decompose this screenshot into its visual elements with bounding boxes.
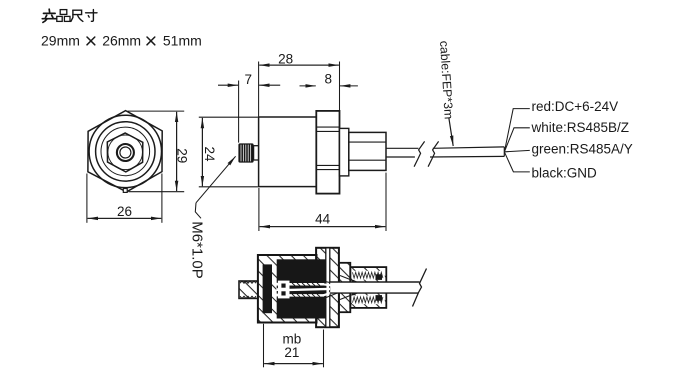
gland internal thread top [352, 271, 385, 280]
front view inscribed circle of nut [108, 135, 143, 170]
section flange inner channel [326, 249, 330, 327]
front view large circle [89, 115, 161, 187]
section wire funnel lines [324, 276, 359, 300]
wire fan line green [505, 150, 530, 151]
funnel dark wedges [352, 279, 360, 284]
svg-text:M6*1.0P: M6*1.0P [188, 221, 205, 279]
section cable bore [330, 282, 420, 293]
section step ring [339, 263, 350, 312]
side view thread coil [238, 143, 253, 162]
svg-text:8: 8 [324, 71, 332, 86]
section connector block [276, 281, 289, 299]
wire fan line white [505, 128, 530, 152]
wire fan line black [505, 152, 530, 172]
front view middle circle [96, 122, 155, 181]
multiplication sign 1 [87, 37, 155, 45]
side view cable left segment [386, 141, 504, 166]
section black potting block [277, 259, 326, 318]
front view bottom key square [123, 189, 127, 193]
section inner black strip [263, 264, 272, 313]
side view cable right segment [433, 147, 505, 148]
svg-text:7: 7 [244, 72, 252, 87]
svg-text:red:DC+6-24V: red:DC+6-24V [532, 99, 619, 114]
side view thread collar [254, 146, 259, 160]
side view hex section [316, 111, 339, 194]
svg-text:black:GND: black:GND [532, 165, 598, 180]
multiplication sign 2 [147, 37, 155, 45]
wire fan line red [505, 109, 530, 172]
connector pin 2 [281, 291, 285, 295]
M6 leader arrow [195, 156, 235, 218]
svg-text:green:RS485A/Y: green:RS485A/Y [532, 142, 633, 157]
svg-text:21: 21 [284, 345, 299, 360]
svg-text:24: 24 [202, 146, 217, 162]
char 品 [57, 10, 70, 22]
section main shell [258, 255, 317, 323]
char 产 [42, 9, 56, 22]
section flange ring [316, 248, 339, 327]
side view gland nut [349, 132, 386, 170]
side view main body [259, 117, 317, 187]
front view thin circle [101, 127, 150, 176]
front view inner hex nut [107, 133, 143, 172]
section gland nut [350, 267, 386, 308]
title 产品尺寸 (hand-drawn strokes) [42, 9, 97, 22]
dimension 44 [259, 173, 386, 231]
svg-text:29mm26mm51mm: 29mm26mm51mm [41, 32, 202, 48]
dimension mb/21 [264, 324, 324, 368]
dimension 24 [199, 117, 258, 187]
char 寸 [86, 10, 97, 22]
cable label leader arrow [449, 118, 453, 147]
wire twist ticks [292, 283, 320, 297]
dimension 29 extension lines [128, 111, 185, 192]
dimension 28 [259, 62, 340, 117]
svg-text:white:RS485B/Z: white:RS485B/Z [531, 120, 630, 135]
char 尺 [71, 10, 83, 21]
side view step cylinder [340, 128, 349, 176]
cable break mark 2 [428, 141, 439, 166]
svg-text:26: 26 [117, 204, 132, 219]
svg-text:mb: mb [283, 331, 302, 346]
section wires through potting [290, 284, 345, 295]
dimension 26 line [88, 217, 162, 219]
dimension 7 [218, 81, 280, 143]
front view center hole ring [117, 144, 134, 161]
dimension 26 extension lines [87, 174, 162, 223]
front view outer hexagon [88, 111, 162, 192]
cable break mark 1 [414, 141, 425, 166]
section cable break [413, 269, 427, 307]
svg-text:29: 29 [175, 148, 190, 163]
connector pin 1 [281, 284, 285, 288]
section thread stub [239, 281, 258, 298]
svg-text:44: 44 [315, 211, 331, 226]
dimension 8 [300, 85, 358, 87]
dimension 29 line [176, 112, 178, 191]
svg-text:28: 28 [278, 52, 293, 67]
gland internal thread bottom [352, 295, 385, 304]
